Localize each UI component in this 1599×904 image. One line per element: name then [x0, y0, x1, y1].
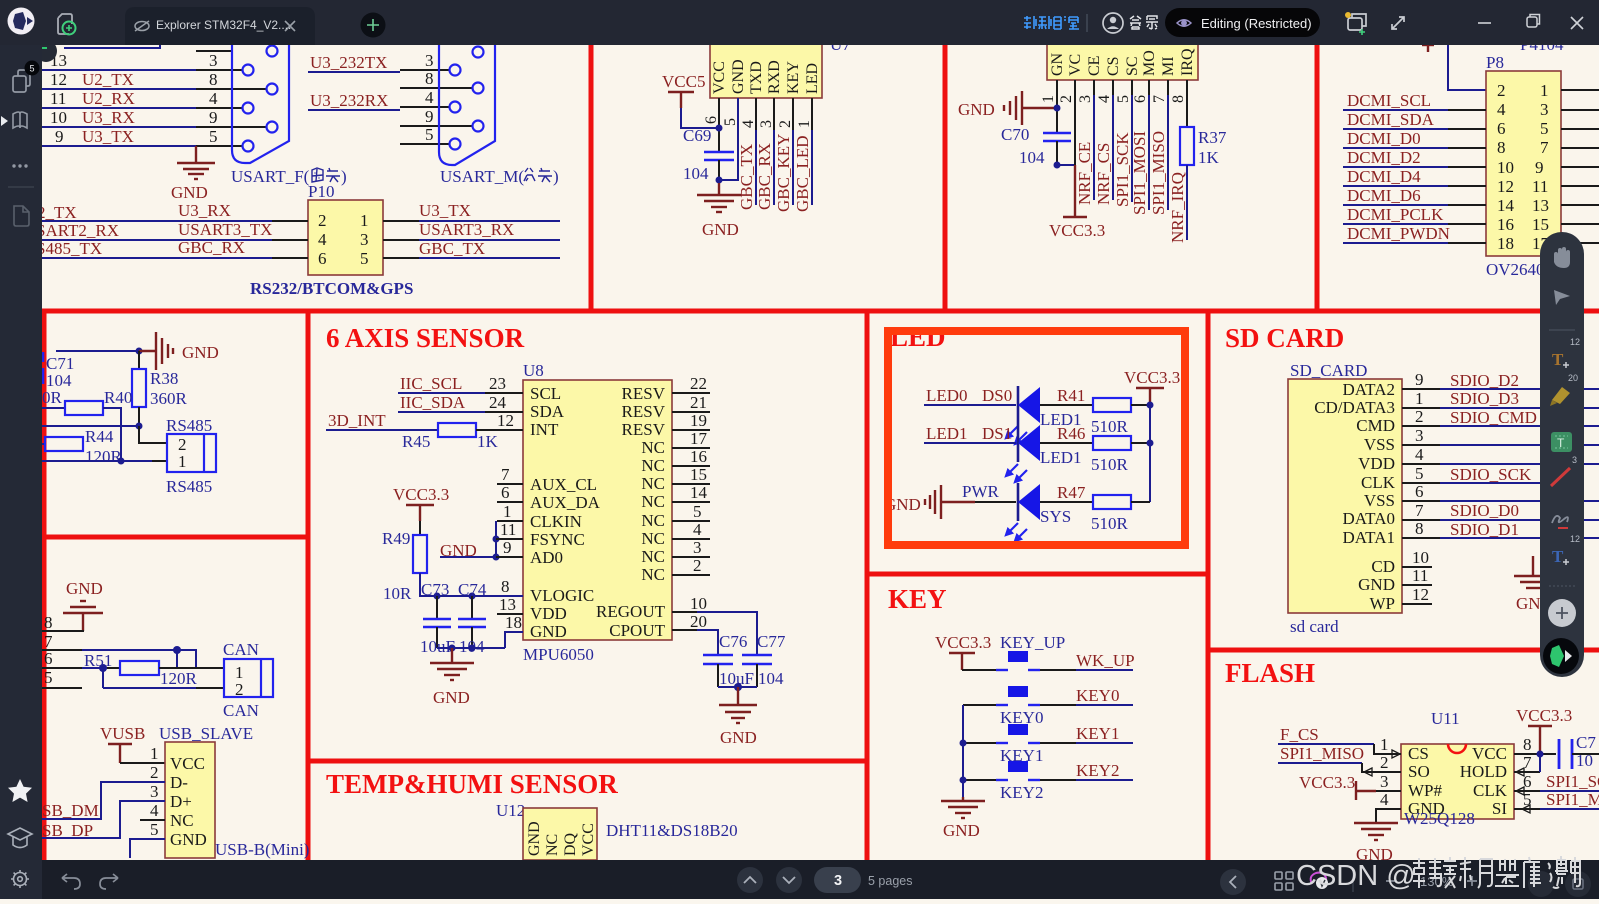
led DS0: [1006, 386, 1082, 444]
page pill: [814, 867, 861, 893]
svg-text:5: 5: [722, 118, 739, 126]
svg-text:2: 2: [235, 680, 244, 699]
wire KEY1: [1076, 724, 1133, 743]
separator: [1086, 14, 1088, 32]
svg-text:7: 7: [1415, 501, 1424, 520]
wire AUX_DA stub: [497, 483, 523, 502]
connector USB-B mini: [150, 742, 309, 859]
svg-text:7: 7: [1540, 138, 1549, 157]
wire row 13: [42, 51, 242, 70]
svg-text:D+: D+: [170, 792, 192, 811]
gear icon: [11, 870, 29, 888]
svg-text:CLK: CLK: [1361, 473, 1396, 492]
svg-text:2: 2: [693, 556, 702, 575]
wire DB9M pin8: [400, 69, 472, 88]
wire CD stub: [1402, 548, 1432, 567]
window minimize: [1478, 22, 1491, 24]
wire GBC_RX vertical: [755, 98, 774, 210]
wire into P8 pin2: [1448, 45, 1486, 90]
svg-text:6: 6: [1415, 482, 1424, 501]
wire 3D_INT with resistor R45: [326, 411, 523, 451]
snapshot icon: [1348, 14, 1366, 30]
svg-text:T: T: [1552, 547, 1564, 566]
svg-text:21: 21: [690, 393, 707, 412]
wire SPI1_MISO: [1278, 744, 1401, 776]
wire gnd rail: [437, 645, 505, 652]
svg-text:1: 1: [1540, 81, 1549, 100]
svg-text:1: 1: [1415, 389, 1424, 408]
svg-text:VCC3.3: VCC3.3: [1049, 221, 1105, 240]
svg-text:GND: GND: [530, 622, 567, 641]
svg-text:20: 20: [690, 612, 707, 631]
svg-text:510R: 510R: [1091, 417, 1129, 436]
svg-text:8: 8: [44, 613, 53, 632]
svg-text:120R: 120R: [160, 669, 198, 688]
wire AUX_CL stub: [497, 465, 523, 484]
svg-text:TXD: TXD: [748, 61, 765, 94]
svg-text:MO: MO: [1141, 50, 1158, 76]
svg-text:VCC3.3: VCC3.3: [1299, 773, 1355, 792]
svg-text:2: 2: [1415, 407, 1424, 426]
wire SPI1_MISO: [1149, 80, 1168, 215]
ground GND: [941, 797, 985, 840]
svg-text:GND: GND: [958, 100, 995, 119]
svg-text:1K: 1K: [1198, 148, 1220, 167]
resistor R38: [132, 351, 188, 426]
svg-text:GBC_KEY: GBC_KEY: [774, 134, 793, 212]
wire VSS1: [1402, 426, 1599, 445]
svg-text:3: 3: [834, 873, 842, 889]
capacitor C77: [742, 632, 786, 688]
svg-text:IRQ: IRQ: [1179, 48, 1196, 76]
svg-text:6: 6: [44, 649, 53, 668]
tab shape: [125, 7, 315, 45]
svg-text:DCMI_D6: DCMI_D6: [1347, 186, 1421, 205]
svg-text:CPOUT: CPOUT: [609, 621, 665, 640]
wire CPOUT: [672, 630, 718, 654]
svg-text:C76: C76: [719, 632, 747, 651]
svg-text:SD_CARD: SD_CARD: [1290, 361, 1367, 380]
wire DCMI_D2: [1343, 148, 1486, 167]
svg-text:LED: LED: [890, 322, 946, 352]
ground GND sideways: [884, 485, 975, 519]
svg-text:SPI1_MISO: SPI1_MISO: [1280, 744, 1364, 763]
add annotation button: [1548, 599, 1576, 627]
resistor R44: [42, 427, 123, 466]
divider AXIS/TEMP: [308, 759, 867, 764]
svg-text:12: 12: [497, 411, 514, 430]
svg-text:C73: C73: [421, 580, 449, 599]
svg-text:5: 5: [150, 820, 159, 839]
resistor R47: [1040, 483, 1150, 533]
svg-text:5: 5: [425, 125, 434, 144]
svg-text:C70: C70: [1001, 125, 1029, 144]
svg-text:NC: NC: [641, 438, 665, 457]
svg-text:LED0: LED0: [926, 386, 968, 405]
svg-text:NRF_CS: NRF_CS: [1094, 143, 1113, 205]
svg-text:4: 4: [150, 801, 159, 820]
wire SPI1_SCK pin6: [1514, 772, 1599, 795]
svg-text:7: 7: [1151, 95, 1168, 103]
wire GND stub: [1402, 566, 1432, 585]
connector U7 bluetooth header: [710, 35, 851, 98]
svg-text:GN: GN: [1049, 52, 1066, 76]
svg-text:CLKIN: CLKIN: [530, 512, 582, 531]
svg-text:8: 8: [1523, 735, 1532, 754]
svg-text:CD: CD: [1371, 557, 1395, 576]
svg-text:5: 5: [1415, 464, 1424, 483]
resistor R46: [1040, 424, 1150, 474]
svg-text:1: 1: [178, 452, 187, 471]
resistor R49: [382, 521, 523, 603]
svg-text:GBC_RX: GBC_RX: [178, 238, 245, 257]
svg-text:4: 4: [209, 89, 218, 108]
svg-text:LED1: LED1: [926, 424, 968, 443]
ground GND left: [430, 648, 474, 707]
svg-text:GBC_TX: GBC_TX: [737, 144, 756, 210]
wire GBC_TX right: [383, 239, 560, 258]
svg-text:15: 15: [690, 465, 707, 484]
svg-text:FSYNC: FSYNC: [530, 530, 585, 549]
svg-text:3: 3: [425, 51, 434, 70]
svg-text:VDD: VDD: [1358, 454, 1395, 473]
fullscreen button: [1528, 871, 1554, 897]
wire GBC_LED vertical: [793, 98, 812, 212]
stamp tool green: [1551, 432, 1572, 452]
pin numbers U7: [703, 116, 813, 128]
svg-text:DCMI_PWDN: DCMI_PWDN: [1347, 224, 1450, 243]
svg-text:3: 3: [1540, 100, 1549, 119]
net label GND (AD0): [440, 541, 496, 560]
connector CAN: [223, 640, 273, 720]
svg-text:sd card: sd card: [1290, 617, 1339, 636]
undo icon: [62, 874, 80, 889]
svg-text:4: 4: [318, 230, 327, 249]
junction: [136, 348, 143, 355]
new doc icon: [58, 14, 72, 34]
svg-text:GND: GND: [943, 821, 980, 840]
svg-text:R44: R44: [85, 427, 114, 446]
svg-text:SI: SI: [1492, 799, 1507, 818]
wire SDIO_D0: [1402, 501, 1599, 520]
wire KEY0: [1076, 686, 1133, 705]
wire SDIO_D3: [1402, 389, 1599, 408]
svg-text:5: 5: [1540, 119, 1549, 138]
svg-text:SART2_RX: SART2_RX: [36, 221, 119, 240]
connector NRF24L01 header: [1047, 40, 1198, 80]
wire cap gnd rail: [718, 683, 757, 691]
svg-text:): ): [553, 167, 559, 186]
svg-text:AUX_CL: AUX_CL: [530, 475, 597, 494]
wire VDD stub: [497, 595, 523, 614]
svg-text:1: 1: [1040, 95, 1057, 103]
capacitor C71 partial: [43, 352, 74, 390]
wire U3_TX row 9: [42, 127, 242, 146]
wire DCMI_PWDN: [1343, 224, 1486, 243]
more dots: [12, 164, 27, 167]
ground GND right: [1514, 556, 1553, 613]
svg-text:17: 17: [690, 429, 708, 448]
svg-text:KEY2: KEY2: [1076, 761, 1119, 780]
svg-text:360R: 360R: [150, 389, 188, 408]
svg-text:CS: CS: [1105, 56, 1122, 76]
wire pin2 vertical: [1074, 80, 1076, 165]
window close: [1571, 17, 1583, 29]
svg-text:RESV: RESV: [622, 384, 666, 403]
wire RESV stubs right: [672, 393, 710, 575]
svg-text:2: 2: [1497, 81, 1506, 100]
svg-text:VCC3.3: VCC3.3: [1124, 368, 1180, 387]
wire key gnd rail: [960, 705, 967, 797]
svg-text:8: 8: [1415, 519, 1424, 538]
expand icon: [1392, 17, 1404, 29]
svg-text:3: 3: [1380, 772, 1389, 791]
svg-text:GND: GND: [720, 728, 757, 747]
svg-text:NRF_CE: NRF_CE: [1075, 142, 1094, 205]
svg-text:GND: GND: [66, 579, 103, 598]
svg-text:11: 11: [1532, 177, 1548, 196]
svg-text:AUX_DA: AUX_DA: [530, 493, 601, 512]
account icon: [1103, 13, 1123, 33]
svg-text:DCMI_D0: DCMI_D0: [1347, 129, 1421, 148]
svg-text:8: 8: [1170, 95, 1187, 103]
sheet divider vertical top 2: [943, 45, 948, 311]
svg-text:13: 13: [499, 595, 516, 614]
button KEY2: [963, 761, 1076, 802]
tab close: [285, 21, 295, 31]
svg-text:P10: P10: [308, 182, 334, 201]
wire U2_TX row 12: [42, 70, 267, 89]
svg-text:RXD: RXD: [766, 60, 783, 94]
wire C70 to pin2: [1057, 164, 1075, 166]
svg-text:2: 2: [150, 763, 159, 782]
wire row 5: [42, 668, 224, 688]
text chuangjian zhanghu: [1024, 16, 1079, 29]
svg-text:20: 20: [1568, 373, 1578, 383]
app logo: [8, 8, 35, 35]
wire SDIO_D1: [1402, 519, 1599, 539]
wire DB9M pin5: [400, 125, 449, 144]
svg-text:U3_232RX: U3_232RX: [310, 91, 388, 110]
svg-text:VCC: VCC: [170, 754, 205, 773]
svg-text:6 AXIS SENSOR: 6 AXIS SENSOR: [326, 323, 525, 353]
wire GND pin4: [1376, 790, 1401, 822]
sheet divider vertical top 3: [1315, 45, 1320, 311]
svg-text:GND: GND: [1358, 575, 1395, 594]
svg-text:NC: NC: [641, 474, 665, 493]
svg-text:10: 10: [50, 108, 67, 127]
svg-text:SYS: SYS: [1040, 507, 1071, 526]
svg-text:SPI1_M: SPI1_M: [1546, 790, 1599, 809]
capacitor C76: [703, 632, 754, 688]
wire SPI1_MOSI pin5: [1514, 790, 1599, 813]
divider SD/FLASH: [1208, 648, 1599, 653]
svg-text:510R: 510R: [1091, 455, 1129, 474]
svg-text:GND: GND: [702, 220, 739, 239]
hand tool: [1554, 247, 1570, 268]
wire GBC_TX vertical: [737, 98, 756, 210]
svg-text:4: 4: [1096, 95, 1113, 103]
collaborator cursor badge: [35, 40, 57, 62]
svg-text:6: 6: [501, 483, 510, 502]
wire NRF_CS: [1094, 80, 1113, 205]
power stub partial top: [1422, 45, 1434, 52]
svg-text:): ): [341, 167, 347, 186]
wire SDIO_SCK: [1402, 464, 1555, 484]
svg-text:LED1: LED1: [1040, 448, 1082, 467]
svg-text:10: 10: [1576, 751, 1593, 770]
sheet divider horizontal main: [42, 309, 1599, 314]
capacitor C74: [458, 580, 487, 656]
svg-text:8: 8: [425, 69, 434, 88]
svg-text:4: 4: [1497, 100, 1506, 119]
svg-text:7: 7: [501, 465, 510, 484]
svg-text:VDD: VDD: [530, 604, 567, 623]
svg-text:USB_SLAVE: USB_SLAVE: [159, 724, 253, 743]
sheet divider vertical bottom 2: [865, 311, 870, 860]
svg-text:4: 4: [740, 120, 757, 128]
svg-text:R51: R51: [84, 651, 112, 670]
power VCC5: [662, 72, 705, 108]
svg-text:KEY0: KEY0: [1076, 686, 1119, 705]
wire SPI1_SCK: [1113, 80, 1132, 207]
junction: [1147, 440, 1154, 447]
editing pill: [1165, 8, 1320, 37]
svg-text:C77: C77: [757, 632, 786, 651]
wire CLKIN stub: [497, 502, 523, 521]
wire IIC_SDA: [398, 393, 523, 412]
ground GND right: [719, 687, 757, 747]
svg-text:DQ: DQ: [562, 832, 579, 856]
wire LED0 row: [924, 386, 1016, 405]
svg-text:VCC: VCC: [1472, 744, 1507, 763]
page down button: [776, 867, 802, 893]
divider: [8, 186, 34, 188]
svg-text:R46: R46: [1057, 424, 1085, 443]
svg-text:USART_F(: USART_F(: [231, 167, 310, 186]
svg-text:SPI1_MOSI: SPI1_MOSI: [1130, 131, 1149, 215]
capacitor C73: [420, 580, 455, 656]
svg-text:NC: NC: [641, 547, 665, 566]
wire WK_UP: [1076, 651, 1135, 670]
svg-text:9: 9: [425, 107, 434, 126]
svg-text:F_CS: F_CS: [1280, 725, 1319, 744]
power VCC3.3 left (WP#): [1299, 772, 1401, 800]
sheet divider vertical bottom 3: [1206, 311, 1211, 860]
svg-text:NRF_IRQ: NRF_IRQ: [1168, 172, 1187, 243]
svg-text:U3_RX: U3_RX: [178, 201, 231, 220]
grid view icon: [1275, 872, 1293, 890]
ground GND (USART_F pin5): [177, 146, 215, 179]
wire WP stub: [1402, 585, 1432, 604]
svg-text:VCC3.3: VCC3.3: [393, 485, 449, 504]
svg-text:GBC_RX: GBC_RX: [755, 143, 774, 210]
svg-text:U8: U8: [523, 361, 544, 380]
power VUSB: [100, 724, 165, 763]
svg-text:11: 11: [500, 520, 516, 539]
zoom out: [1386, 880, 1396, 882]
junction: [1147, 402, 1154, 409]
svg-text:IIC_SCL: IIC_SCL: [400, 374, 462, 393]
svg-text:C69: C69: [683, 126, 711, 145]
wire USART2_TX / U3_RX: [37, 201, 308, 222]
svg-text:16: 16: [690, 447, 707, 466]
svg-text:10: 10: [1412, 548, 1429, 567]
svg-text:SPI1_SC: SPI1_SC: [1546, 772, 1599, 791]
svg-text:3: 3: [1572, 455, 1577, 465]
svg-text:GND: GND: [526, 821, 543, 856]
wire U3_232TX: [308, 51, 449, 72]
svg-text:9: 9: [55, 127, 64, 146]
junction: [716, 125, 723, 132]
svg-text:GND: GND: [170, 830, 207, 849]
ground GND left: [958, 91, 1057, 125]
svg-text:10: 10: [690, 594, 707, 613]
power VCC3.3: [393, 485, 449, 521]
svg-text:RESV: RESV: [622, 402, 666, 421]
svg-text:1: 1: [503, 502, 512, 521]
svg-text:VLOGIC: VLOGIC: [530, 586, 594, 605]
svg-text:SCL: SCL: [530, 384, 561, 403]
svg-text:LED: LED: [804, 63, 821, 94]
svg-text:3: 3: [1077, 95, 1094, 103]
svg-text:4: 4: [425, 88, 434, 107]
star icon: [8, 779, 32, 802]
svg-text:6: 6: [318, 249, 327, 268]
svg-text:RS232/BTCOM&GPS: RS232/BTCOM&GPS: [250, 279, 413, 298]
svg-text:14: 14: [1497, 196, 1515, 215]
svg-text:16: 16: [1497, 215, 1514, 234]
wire PWR row: [962, 482, 1016, 502]
svg-text:12: 12: [1570, 534, 1580, 544]
wire row 7: [42, 632, 196, 668]
wire FSYNC/AD0 tie: [493, 520, 524, 561]
svg-text:DATA1: DATA1: [1343, 528, 1395, 547]
wires P8 right pins: [1561, 90, 1599, 243]
resistor R40: [42, 388, 132, 461]
app logo button: [1543, 638, 1579, 674]
svg-text:NC: NC: [641, 456, 665, 475]
resistor R37: [1180, 80, 1227, 167]
svg-text:1: 1: [150, 744, 159, 763]
divider: [1549, 585, 1575, 587]
svg-text:12: 12: [1570, 337, 1580, 347]
svg-text:U3_TX: U3_TX: [419, 201, 471, 220]
svg-text:USART_M(: USART_M(: [440, 167, 524, 186]
svg-text:5: 5: [44, 668, 53, 687]
svg-text:5: 5: [29, 64, 34, 74]
svg-text:5: 5: [693, 502, 702, 521]
svg-text:8: 8: [501, 577, 510, 596]
wire vcc rail: [1149, 405, 1151, 502]
svg-text:SO: SO: [1408, 762, 1430, 781]
svg-text:GND: GND: [730, 59, 747, 94]
capacitor C69: [683, 126, 734, 183]
wire DCMI_PCLK: [1343, 205, 1486, 224]
svg-text:VSS: VSS: [1364, 435, 1395, 454]
wire NRF_CE: [1075, 80, 1094, 205]
connector SD_CARD: [1288, 361, 1402, 636]
wire F_CS: [1278, 725, 1401, 758]
svg-text:TEMP&HUMI SENSOR: TEMP&HUMI SENSOR: [326, 769, 618, 799]
wire pin1: [1056, 80, 1058, 132]
ground GND top: [63, 579, 103, 631]
tab doc icon: [135, 21, 149, 31]
svg-text:DCMI_D4: DCMI_D4: [1347, 167, 1421, 186]
svg-text:6: 6: [703, 116, 720, 124]
svg-text:IIC_SDA: IIC_SDA: [400, 393, 466, 412]
svg-text:3: 3: [209, 51, 218, 70]
